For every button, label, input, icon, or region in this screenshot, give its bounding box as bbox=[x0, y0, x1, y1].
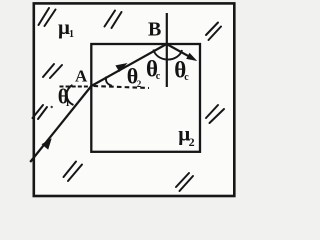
arrowhead on reflected ray bbox=[186, 53, 197, 61]
hatch mark left-upper bbox=[43, 64, 62, 78]
hatch mark left-lower bbox=[33, 105, 48, 119]
hatch mark top-left bbox=[39, 8, 56, 26]
inner glass block rectangle bbox=[91, 44, 200, 152]
dashed normal at A (left part) bbox=[60, 85, 90, 87]
hatch mark top-center bbox=[105, 11, 122, 29]
svg-text:2: 2 bbox=[189, 135, 195, 149]
svg-text:A: A bbox=[75, 67, 88, 86]
hatch mark bottom-left bbox=[64, 162, 83, 182]
arrowhead on refracted ray bbox=[115, 63, 127, 72]
svg-text:B: B bbox=[148, 19, 161, 41]
dashed normal at A (right part) bbox=[94, 86, 150, 88]
svg-text:1: 1 bbox=[69, 29, 74, 40]
refracted ray (A to B) bbox=[91, 44, 166, 86]
stray scan dot bbox=[51, 106, 53, 108]
outer glass slab rectangle bbox=[34, 3, 235, 196]
svg-text:1: 1 bbox=[65, 98, 70, 108]
critical angle arc at B bbox=[154, 50, 183, 60]
hatch mark top-right bbox=[206, 23, 221, 41]
svg-text:2: 2 bbox=[137, 79, 142, 89]
svg-text:c: c bbox=[156, 71, 161, 82]
normal line at B bbox=[166, 13, 168, 87]
reflected ray (B, total internal reflection) bbox=[167, 44, 192, 58]
theta1 angle arc at A bbox=[67, 85, 74, 105]
theta2 angle arc at A bbox=[106, 77, 112, 86]
incident ray (bottom-left to A) bbox=[30, 86, 91, 162]
hatch mark bottom-right bbox=[176, 173, 193, 191]
hatch mark right-middle bbox=[206, 105, 224, 123]
arrowhead on incident ray bbox=[42, 138, 52, 149]
svg-text:c: c bbox=[184, 72, 189, 83]
